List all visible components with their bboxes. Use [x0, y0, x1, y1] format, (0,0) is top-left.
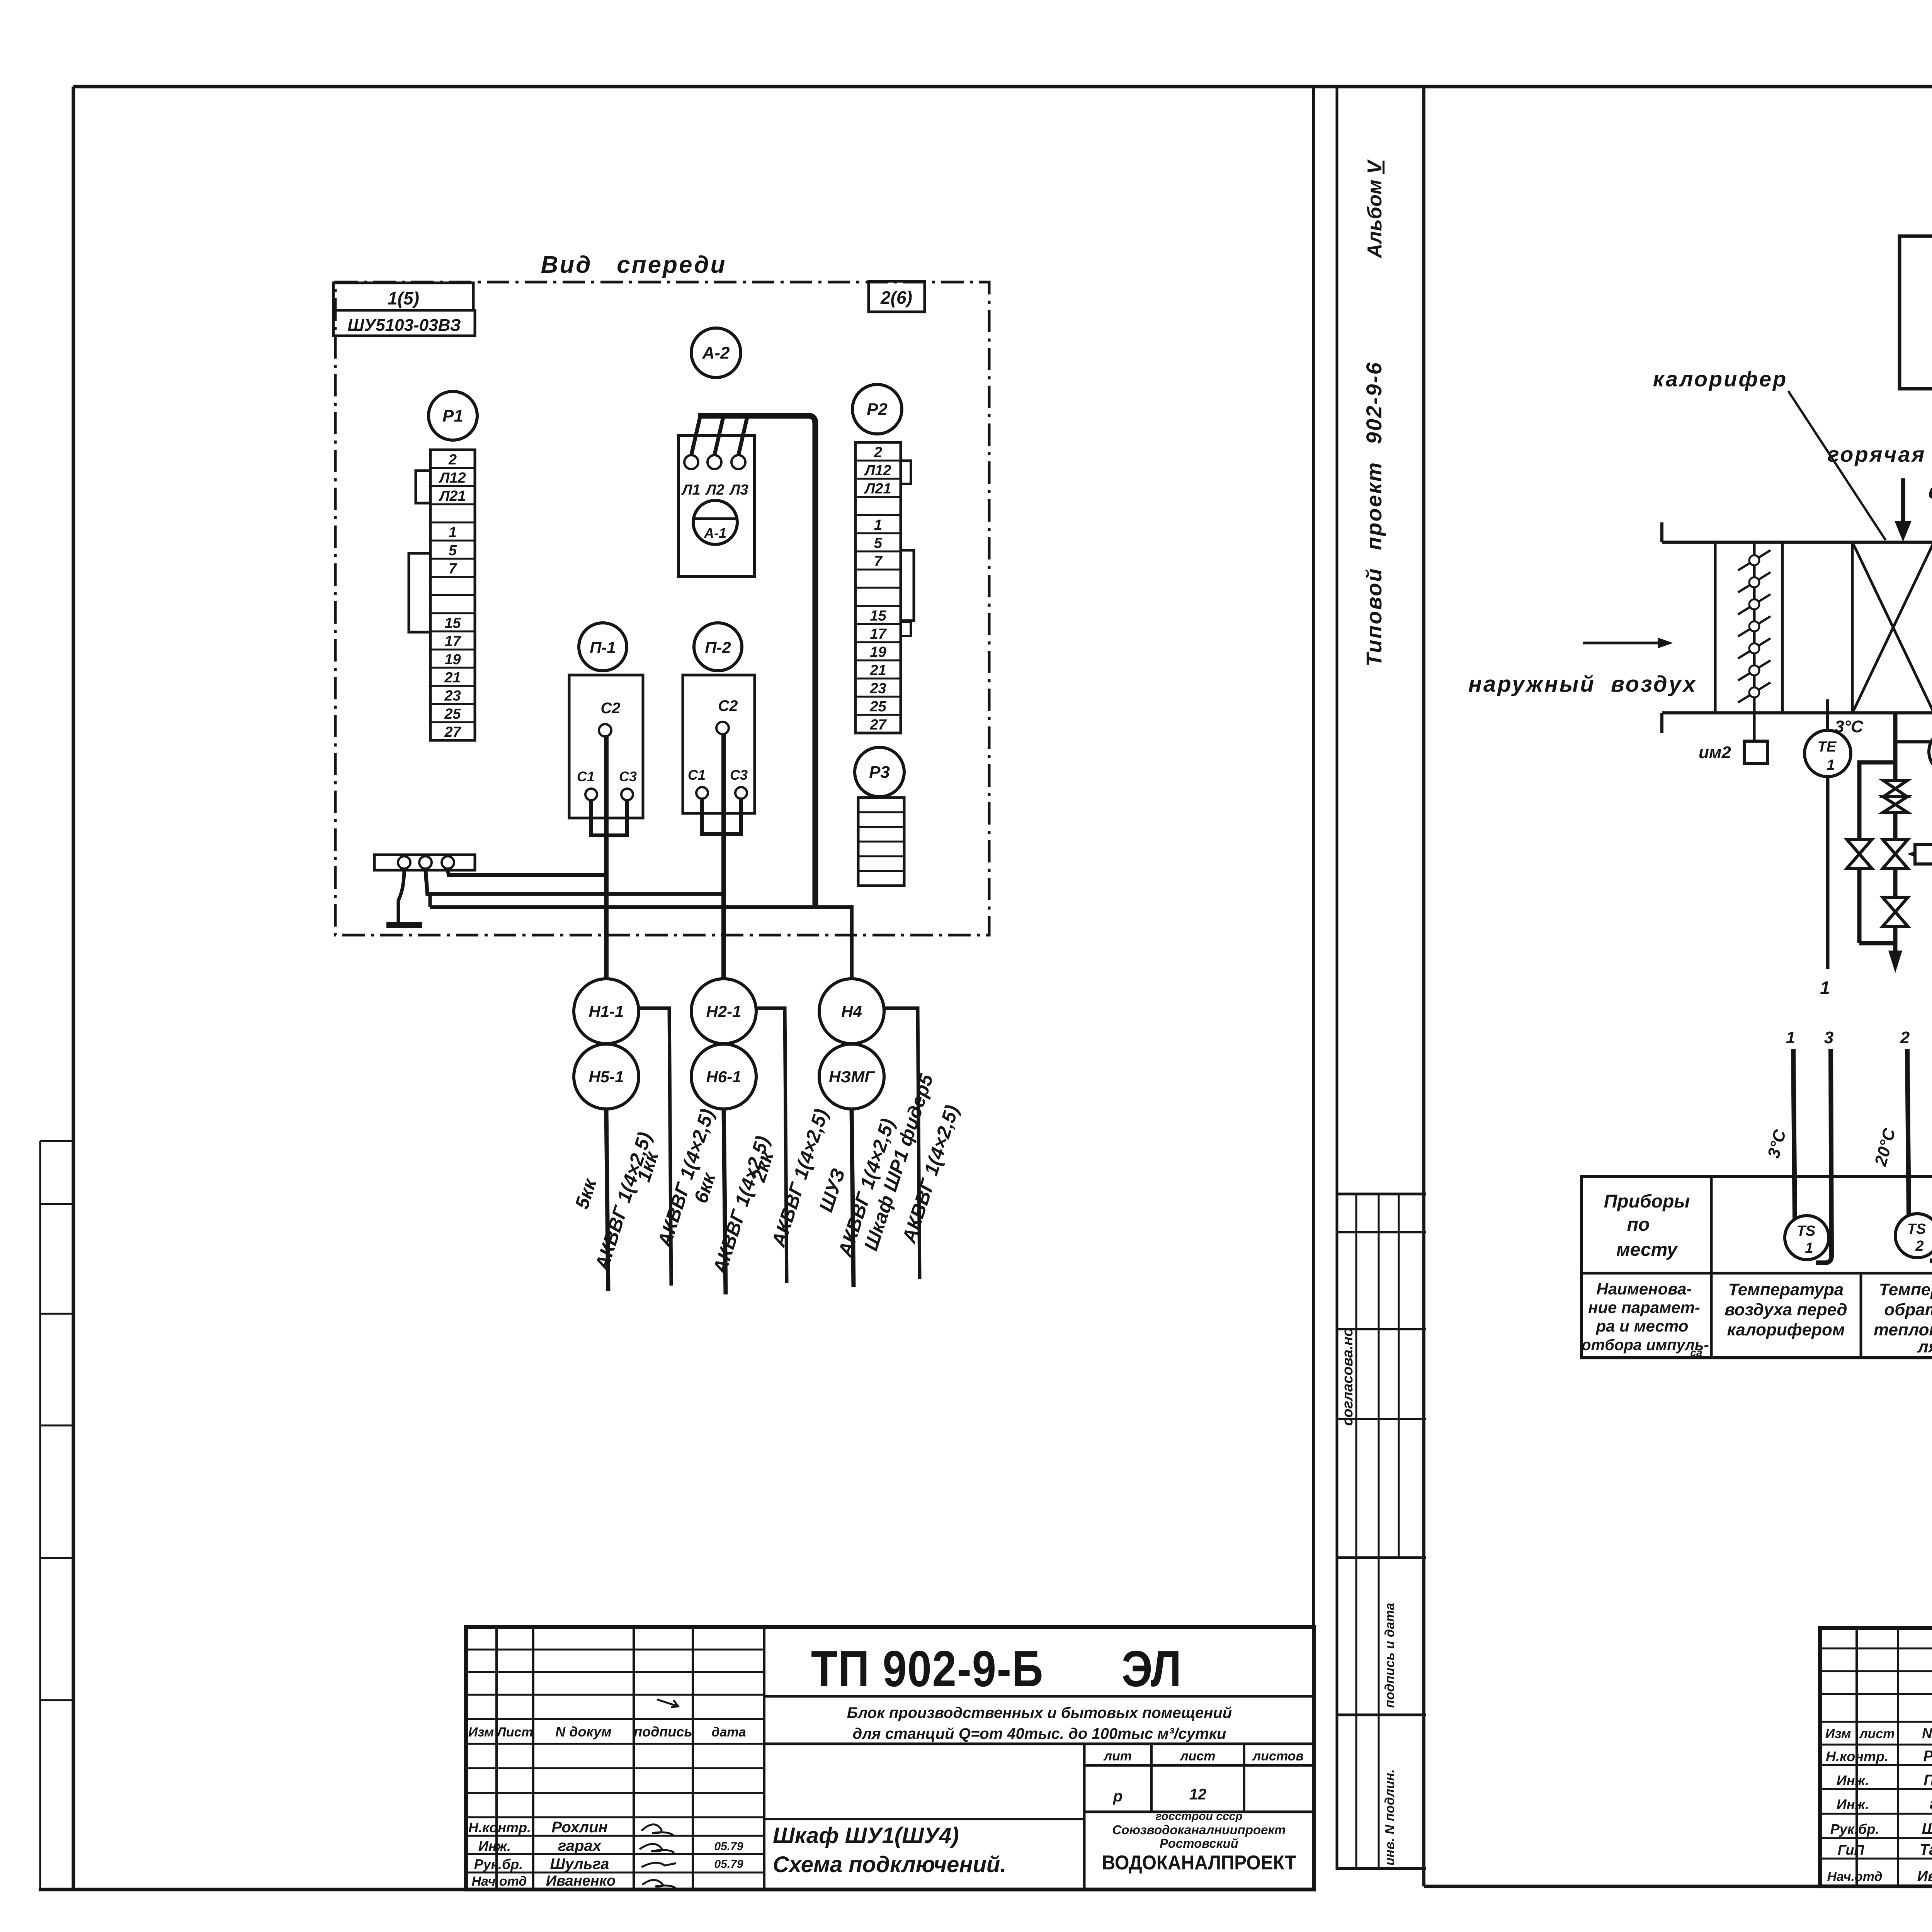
svg-text:Р1: Р1 — [442, 406, 463, 425]
svg-text:ТS: ТS — [1797, 1223, 1816, 1239]
svg-text:Ростовский: Ростовский — [1160, 1836, 1238, 1850]
svg-text:ТЕ: ТЕ — [1818, 739, 1837, 755]
svg-text:Изм: Изм — [1825, 1726, 1851, 1741]
svg-text:С2: С2 — [600, 700, 620, 717]
svg-text:ние парамет-: ние парамет- — [1588, 1298, 1700, 1316]
svg-text:23: 23 — [869, 680, 886, 697]
node: input terminal block — [374, 855, 475, 870]
svg-text:Типовой проект 902-9-6: Типовой проект 902-9-6 — [1362, 361, 1386, 667]
svg-text:обратного: обратного — [1884, 1300, 1932, 1319]
node: strip XT2 tab 1 — [901, 461, 911, 484]
wire: duct top — [1662, 541, 1932, 544]
component IM1 actuator — [1915, 845, 1932, 864]
wire: outside air arrow — [1583, 642, 1658, 645]
svg-text:наружный воздух: наружный воздух — [1468, 672, 1697, 697]
node: fold tick 3 — [40, 1313, 73, 1315]
component P1 — [429, 391, 477, 440]
svg-text:Л21: Л21 — [438, 488, 466, 504]
svg-text:1(5): 1(5) — [388, 288, 419, 308]
component cable H4 — [819, 979, 884, 1044]
node: fold tick 6 — [40, 1699, 73, 1701]
svg-text:1: 1 — [874, 517, 882, 533]
svg-text:Шульга: Шульга — [1922, 1820, 1932, 1837]
node: terminal L3 — [731, 455, 745, 469]
svg-text:госстрой ссср: госстрой ссср — [1155, 1810, 1242, 1823]
svg-text:Р3: Р3 — [869, 763, 890, 782]
component TE1 sensor — [1826, 699, 1829, 731]
svg-text:7: 7 — [874, 553, 883, 570]
svg-text:Блок производственных и бытовы: Блок производственных и бытовых помещени… — [847, 1704, 1232, 1721]
node: tag box 2(6) — [869, 281, 925, 312]
wire: C2 feeder of starter 1 — [604, 736, 609, 979]
svg-text:месту: месту — [1616, 1240, 1678, 1260]
svg-text:2: 2 — [1915, 1238, 1923, 1254]
component bypass valve — [1847, 839, 1872, 869]
svg-text:Иваненко: Иваненко — [546, 1873, 616, 1889]
node: terminal strip XT2 — [855, 442, 901, 733]
node: terminal L2 — [707, 455, 721, 469]
node: fold tick 1 — [40, 1140, 73, 1142]
svg-text:1: 1 — [1805, 1240, 1813, 1256]
svg-text:Лист: Лист — [496, 1725, 533, 1740]
svg-text:Л1: Л1 — [681, 482, 700, 498]
svg-text:дата: дата — [711, 1725, 746, 1740]
node: lit list listov left — [1083, 1744, 1086, 1889]
svg-text:гарах: гарах — [1930, 1796, 1932, 1813]
wire: TE2 tap to pipe — [1895, 740, 1930, 743]
svg-text:5: 5 — [449, 543, 457, 559]
wire: duct bottom — [1662, 711, 1932, 714]
svg-text:Шульга: Шульга — [550, 1855, 609, 1872]
node: drawing name left — [764, 1818, 1084, 1820]
component valve V2 — [1883, 797, 1907, 812]
svg-text:2: 2 — [874, 444, 882, 461]
wire: sensor line 1 — [1793, 1049, 1795, 1219]
svg-text:27: 27 — [869, 717, 887, 733]
wire: cable drop 1 — [606, 1109, 608, 1291]
node: fold tick 2 — [40, 1203, 73, 1205]
svg-text:П-1: П-1 — [590, 638, 616, 656]
svg-text:Л12: Л12 — [864, 463, 891, 479]
node: spare strip below P3 — [858, 798, 904, 886]
node: soglasovano table — [1337, 1193, 1426, 1196]
wire: left sheet right border — [1312, 87, 1315, 1889]
svg-text:2(6): 2(6) — [880, 287, 912, 308]
svg-text:ЭЛ: ЭЛ — [1122, 1640, 1181, 1697]
svg-text:Наименова-: Наименова- — [1597, 1280, 1692, 1298]
component TS1 — [1785, 1216, 1829, 1260]
svg-text:Н1-1: Н1-1 — [588, 1002, 624, 1020]
svg-text:по: по — [1627, 1214, 1650, 1235]
svg-text:НЗМГ: НЗМГ — [829, 1068, 875, 1086]
svg-text:17: 17 — [870, 626, 887, 642]
svg-text:Н5-1: Н5-1 — [588, 1068, 624, 1086]
node: inv N podlin box — [1337, 1867, 1426, 1870]
svg-text:05.79: 05.79 — [714, 1840, 743, 1853]
svg-text:7: 7 — [449, 561, 457, 577]
svg-text:калорифер: калорифер — [1653, 367, 1788, 391]
svg-text:им2: им2 — [1699, 743, 1731, 762]
svg-text:19: 19 — [444, 651, 461, 668]
wire: heating pipe main — [1893, 713, 1898, 781]
wire: bus line to feeder N4 — [430, 907, 852, 979]
component contactor box with A-1 — [679, 435, 754, 577]
svg-text:лист: лист — [1179, 1749, 1215, 1764]
component P3 — [855, 747, 904, 797]
node: right title block frame — [1820, 1628, 1932, 1886]
component A-2 lamp — [691, 328, 741, 378]
wire: sensor line 3a — [1816, 1049, 1832, 1263]
node: room box Pomeschenie — [1900, 236, 1932, 389]
svg-text:17: 17 — [444, 633, 461, 650]
svg-text:1: 1 — [449, 524, 457, 541]
wire: filing margin vertical — [39, 1141, 41, 1889]
svg-text:Посева: Посева — [1923, 1772, 1932, 1789]
svg-text:подпись и дата: подпись и дата — [1383, 1603, 1397, 1708]
wire: bus line to starter 2 — [425, 869, 724, 894]
svg-text:Температура: Температура — [1879, 1280, 1932, 1299]
svg-text:Н2-1: Н2-1 — [706, 1002, 741, 1020]
svg-text:теплоносите-: теплоносите- — [1874, 1320, 1932, 1339]
svg-text:гарах: гарах — [558, 1837, 602, 1854]
node: strip XT1 tab upper — [416, 471, 430, 503]
svg-text:Л21: Л21 — [864, 481, 891, 497]
svg-text:ГиП: ГиП — [1838, 1842, 1865, 1858]
node: strip XT1 tab lower — [409, 553, 430, 632]
svg-text:горячая вода: горячая вода — [1828, 442, 1932, 466]
wire: bus from lamps to A-2 feeder — [691, 417, 700, 455]
ground — [398, 869, 404, 923]
svg-text:Температура: Температура — [1728, 1280, 1844, 1299]
svg-text:Л2: Л2 — [705, 482, 724, 498]
svg-text:Н.контр.: Н.контр. — [468, 1820, 531, 1835]
svg-text:15: 15 — [870, 608, 886, 624]
svg-text:Инж.: Инж. — [1837, 1772, 1869, 1788]
node: tag box ShU5103-03V3 — [333, 310, 475, 336]
node: tag box 1(5) — [333, 283, 473, 310]
svg-text:3: 3 — [1824, 1028, 1833, 1047]
wire: flag line 2 — [756, 1008, 787, 1283]
svg-text:N докум.: N докум. — [1922, 1725, 1932, 1741]
svg-text:ра и место: ра и место — [1596, 1317, 1689, 1335]
svg-text:для станций Q=от 40тыс. до 100: для станций Q=от 40тыс. до 100тыс м³/сут… — [853, 1725, 1226, 1742]
svg-text:Тарасов: Тарасов — [1920, 1841, 1932, 1858]
svg-text:Л12: Л12 — [438, 470, 466, 486]
component starter box 1 — [569, 675, 643, 818]
node: fold tick 5 — [40, 1557, 73, 1559]
wire: TE1 tail net 1 — [1826, 777, 1830, 969]
svg-text:Шкаф ШУ1(ШУ4): Шкаф ШУ1(ШУ4) — [773, 1823, 959, 1848]
svg-text:П-2: П-2 — [705, 638, 731, 656]
svg-text:15: 15 — [444, 615, 461, 631]
node: signatures left block — [641, 1825, 673, 1835]
svg-text:Рук.бр.: Рук.бр. — [474, 1856, 523, 1872]
node: terminal L1 — [684, 455, 698, 469]
svg-text:лист: лист — [1859, 1726, 1895, 1741]
svg-text:12: 12 — [1189, 1786, 1207, 1803]
wire: panel dash-dot border — [335, 282, 989, 935]
svg-text:Вид спереди: Вид спереди — [541, 252, 727, 278]
svg-text:Инж.: Инж. — [1837, 1796, 1869, 1812]
svg-text:21: 21 — [444, 670, 461, 686]
svg-text:ШУ5103-03ВЗ: ШУ5103-03ВЗ — [347, 316, 461, 335]
svg-text:са: са — [1690, 1347, 1702, 1359]
svg-text:калорифером: калорифером — [1727, 1320, 1845, 1339]
svg-text:фильтр: фильтр — [1929, 479, 1932, 503]
svg-text:лит: лит — [1103, 1749, 1132, 1764]
wire: bypass line — [1859, 762, 1895, 839]
component damper louver section — [1714, 542, 1717, 713]
svg-text:С3: С3 — [619, 769, 637, 784]
svg-text:23: 23 — [444, 688, 461, 704]
component valve V1 — [1883, 781, 1907, 797]
svg-text:27: 27 — [444, 724, 461, 740]
component starter box 2 — [683, 675, 755, 813]
svg-text:ВОДОКАНАЛПРОЕКТ: ВОДОКАНАЛПРОЕКТ — [1102, 1851, 1296, 1874]
wire: flag line 1 — [639, 1008, 671, 1286]
component A-1 meter — [693, 500, 737, 544]
node: strip XT2 tab 2 — [901, 550, 914, 621]
svg-text:21: 21 — [869, 662, 886, 679]
svg-text:подпись: подпись — [634, 1724, 692, 1740]
svg-text:Инж.: Инж. — [478, 1838, 511, 1854]
svg-text:N докум: N докум — [555, 1724, 612, 1740]
svg-text:Изм: Изм — [468, 1725, 494, 1740]
component P2 — [852, 384, 902, 434]
svg-text:воздуха перед: воздуха перед — [1725, 1300, 1847, 1319]
svg-text:Л3: Л3 — [729, 482, 748, 498]
node: strip XT2 tab 3 — [901, 622, 911, 636]
wire: return arrow down — [1893, 943, 1898, 954]
svg-text:ТП 902-9-Б: ТП 902-9-Б — [811, 1640, 1044, 1697]
node: podpis i data box — [1337, 1714, 1426, 1716]
svg-text:Альбом V: Альбом V — [1364, 159, 1386, 259]
svg-text:листов: листов — [1252, 1749, 1304, 1764]
component cable H2-1 — [691, 979, 756, 1044]
svg-text:05.79: 05.79 — [714, 1858, 743, 1871]
wire: flag line 3 — [884, 1008, 920, 1279]
svg-text:Н6-1: Н6-1 — [706, 1068, 741, 1086]
component control valve with IM1 — [1883, 839, 1908, 869]
svg-text:2: 2 — [448, 452, 457, 468]
component IM2 actuator — [1744, 741, 1767, 764]
svg-text:1: 1 — [1827, 757, 1835, 773]
svg-text:Рук.бр.: Рук.бр. — [1830, 1821, 1879, 1837]
wire: sensor line 2 — [1907, 1049, 1909, 1217]
svg-text:1: 1 — [1786, 1028, 1795, 1047]
wire: cable drop 2 — [724, 1109, 726, 1294]
svg-text:С1: С1 — [577, 769, 595, 784]
svg-text:Схема подключений.: Схема подключений. — [773, 1852, 1006, 1877]
node: instruments table frame — [1582, 1177, 1932, 1358]
svg-text:С3: С3 — [730, 767, 748, 783]
svg-text:5: 5 — [874, 535, 883, 551]
wire: cable drop 3 — [852, 1109, 854, 1287]
component heater kalorifer — [1851, 542, 1854, 713]
node: terminal strip XT1 — [430, 450, 475, 740]
component cable H1-1 — [574, 979, 639, 1044]
svg-text:Н4: Н4 — [841, 1002, 862, 1020]
svg-text:1: 1 — [1820, 978, 1830, 998]
component P-1 starter circle — [579, 623, 627, 671]
wire: left sheet left border — [72, 87, 75, 1889]
wire: outer top border — [73, 85, 1932, 88]
svg-text:А-2: А-2 — [702, 344, 730, 362]
node: inlet flange ticks — [1660, 522, 1663, 542]
svg-text:Союзводоканалниипроект: Союзводоканалниипроект — [1112, 1823, 1286, 1837]
svg-text:р: р — [1113, 1788, 1122, 1805]
wire: middle column left line — [1336, 87, 1338, 1870]
wire: C1-C3 loop starter 2 — [702, 799, 741, 834]
svg-text:Иваненко: Иваненко — [1917, 1868, 1932, 1884]
svg-text:инв. N подлин.: инв. N подлин. — [1383, 1769, 1397, 1866]
component TS2 — [1895, 1214, 1932, 1258]
wire: right sheet left border — [1422, 87, 1425, 1886]
svg-text:25: 25 — [444, 706, 461, 722]
svg-text:Нач.отд: Нач.отд — [1827, 1869, 1882, 1884]
svg-text:Приборы: Приборы — [1604, 1191, 1690, 1212]
wire: bus line to starter 1 — [448, 869, 606, 875]
svg-text:19: 19 — [870, 644, 886, 660]
svg-text:отбора импуль-: отбора импуль- — [1582, 1337, 1709, 1354]
node: left title block frame — [466, 1627, 1314, 1889]
svg-text:А-1: А-1 — [704, 525, 726, 541]
svg-text:ТS: ТS — [1907, 1221, 1926, 1237]
wire: C2 feeder of starter 2 — [721, 734, 726, 979]
svg-text:3°С: 3°С — [1835, 717, 1864, 736]
wire: sensor line 3b — [1930, 1049, 1932, 1261]
svg-text:С1: С1 — [688, 767, 706, 783]
svg-text:Рохлин: Рохлин — [551, 1819, 607, 1836]
wire: C1-C3 loop starter 1 — [591, 800, 627, 835]
node: fold tick 4 — [40, 1425, 73, 1427]
svg-text:С2: С2 — [718, 697, 738, 714]
wire: left sheet bottom border — [39, 1888, 1314, 1891]
svg-text:согласова.но: согласова.но — [1340, 1328, 1356, 1426]
svg-text:Р2: Р2 — [867, 400, 888, 419]
svg-text:25: 25 — [869, 699, 886, 715]
svg-text:Н.контр.: Н.контр. — [1826, 1748, 1888, 1764]
svg-text:Нач.отд: Нач.отд — [471, 1874, 527, 1889]
svg-text:2: 2 — [1900, 1028, 1910, 1047]
svg-text:ля: ля — [1917, 1337, 1932, 1356]
wire: right sheet bottom border — [1424, 1885, 1932, 1888]
svg-text:Рохлин: Рохлин — [1923, 1748, 1932, 1765]
component P-2 starter circle — [694, 623, 742, 671]
wire: hot water supply arrow — [1901, 478, 1905, 522]
component valve V3 — [1883, 897, 1908, 927]
